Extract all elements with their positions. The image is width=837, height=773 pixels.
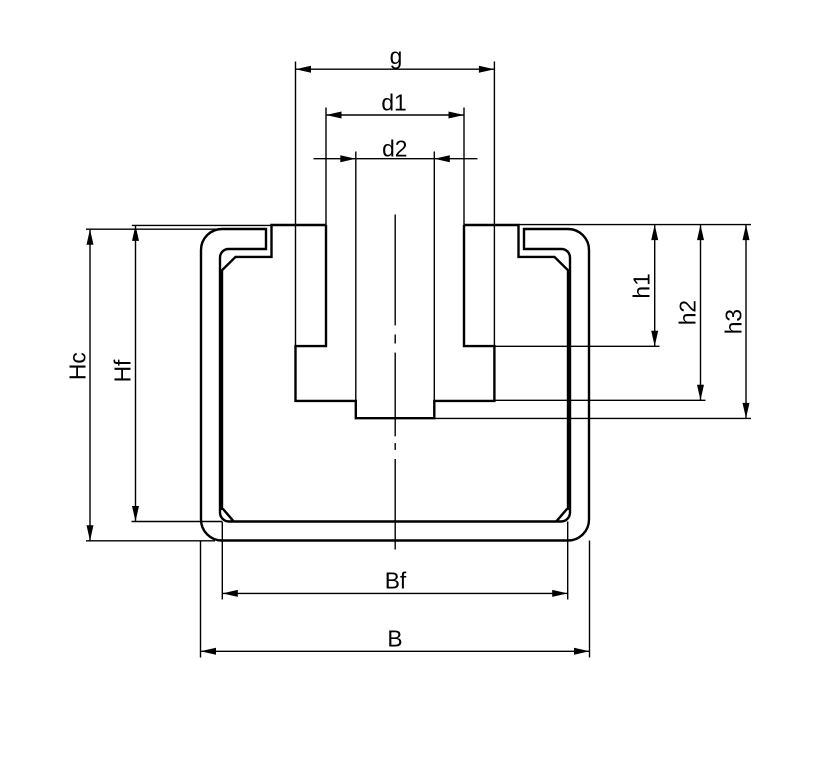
- svg-text:d1: d1: [381, 89, 406, 115]
- svg-text:h3: h3: [721, 309, 747, 334]
- svg-text:g: g: [390, 43, 403, 69]
- svg-text:Hc: Hc: [64, 352, 90, 380]
- svg-text:d2: d2: [382, 136, 407, 162]
- svg-text:B: B: [387, 625, 402, 651]
- svg-text:h1: h1: [628, 273, 654, 298]
- svg-text:h2: h2: [674, 300, 700, 325]
- svg-text:Hf: Hf: [110, 359, 136, 382]
- svg-text:Bf: Bf: [385, 568, 407, 594]
